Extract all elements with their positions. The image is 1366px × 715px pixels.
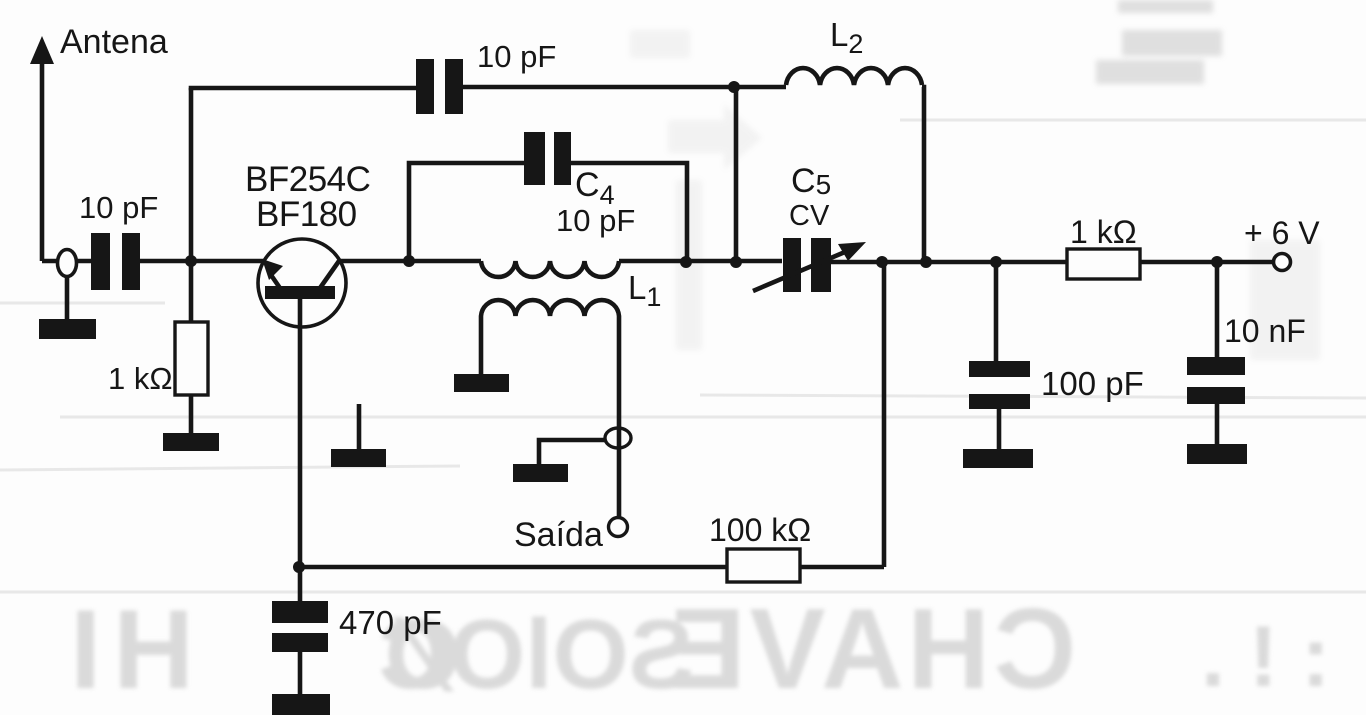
ground (left resistor) (163, 433, 219, 451)
node (top rail / L2 tap) (728, 81, 740, 93)
capacitor 100 pF (963, 262, 1033, 468)
svg-text:100 pF: 100 pF (1041, 365, 1144, 402)
capacitor 10 pF (input) (91, 233, 140, 290)
node (C4 right leg) (680, 256, 692, 268)
svg-text:BF254C: BF254C (245, 160, 370, 199)
svg-text:CHAVE: CHAVE (665, 586, 1076, 713)
capacitor 470 pF (272, 567, 330, 715)
svg-text:+ 6 V: + 6 V (1244, 215, 1320, 251)
node (C4 left leg) (403, 255, 415, 267)
wire: feedback column (882, 262, 887, 567)
node (collector / 470 pF) (293, 561, 305, 573)
input terminal oval (58, 250, 77, 277)
resistor R 1 kOhm (left) (175, 322, 208, 395)
wire: L1 to C5 (619, 259, 782, 264)
ground (secondary left) (454, 374, 509, 392)
antenna (30, 36, 54, 261)
ground (tap branch) (513, 464, 568, 482)
wire: top rail right (463, 85, 786, 90)
wire: resistor to ground (189, 395, 194, 435)
wire: main horizontal rail left segment (42, 259, 91, 264)
node (L2 leg bottom) (920, 256, 932, 268)
ground (floating stub) (331, 404, 386, 467)
node (100 pF tap) (990, 256, 1002, 268)
wire: resistor to +6V (1140, 260, 1274, 265)
inductor L1 secondary (481, 300, 619, 518)
wire: oval to ground (65, 276, 70, 321)
svg-text:CV: CV (789, 200, 830, 232)
wire: tap to ground branch (539, 440, 605, 466)
svg-text:470 pF: 470 pF (339, 604, 442, 641)
ground (input) (39, 319, 96, 339)
capacitor 10 pF (feedback, top) (416, 59, 463, 114)
wire: top rail left (189, 86, 416, 91)
svg-text:HI: HI (58, 587, 194, 712)
transistor Q1 BF254C (258, 239, 346, 567)
terminal +6V (1274, 254, 1291, 271)
svg-text:BF180: BF180 (256, 195, 357, 234)
capacitor C4 10 pF (524, 132, 571, 185)
svg-text:10 nF: 10 nF (1224, 313, 1306, 349)
svg-text:Saída: Saída (514, 516, 603, 554)
resistor 1 kOhm (supply) (1067, 249, 1140, 279)
svg-text:1 kΩ: 1 kΩ (108, 361, 173, 396)
wire: C4 left leg (409, 163, 524, 261)
capacitor C5 CV (variable) (753, 238, 866, 292)
svg-text:100 kΩ: 100 kΩ (709, 512, 811, 548)
capacitor 10 nF (1187, 262, 1247, 464)
wire: L2 right leg down (922, 87, 924, 262)
svg-text:: ! .: : ! . (1201, 609, 1330, 705)
inductor L2 (786, 68, 922, 85)
wire: C4 right leg (571, 163, 687, 262)
svg-text:Antena: Antena (60, 23, 168, 61)
tap oval on secondary output (605, 428, 631, 448)
terminal Saida (609, 518, 628, 537)
svg-text:1 kΩ: 1 kΩ (1070, 214, 1137, 250)
inductor L1 primary (481, 261, 619, 277)
resistor 100 kOhm (727, 549, 800, 582)
node (base column junction) (185, 255, 197, 267)
node (feedback tap) (876, 256, 888, 268)
node (L2 tap bottom) (730, 256, 742, 268)
wire: C5 to output network (828, 260, 1070, 265)
wire: junction down to resistor (189, 261, 194, 324)
svg-text:10 pF: 10 pF (556, 203, 635, 238)
svg-text:10 pF: 10 pF (79, 190, 158, 225)
wire: transistor to L1 (340, 259, 481, 264)
wire: L2 tap down to main rail (734, 87, 739, 262)
wire: junction up to top rail (189, 88, 194, 261)
svg-text:10 pF: 10 pF (477, 39, 556, 74)
wire: feedback bottom rail (299, 565, 884, 570)
node (10 nF tap) (1211, 256, 1223, 268)
wire: cap to transistor (140, 259, 264, 264)
